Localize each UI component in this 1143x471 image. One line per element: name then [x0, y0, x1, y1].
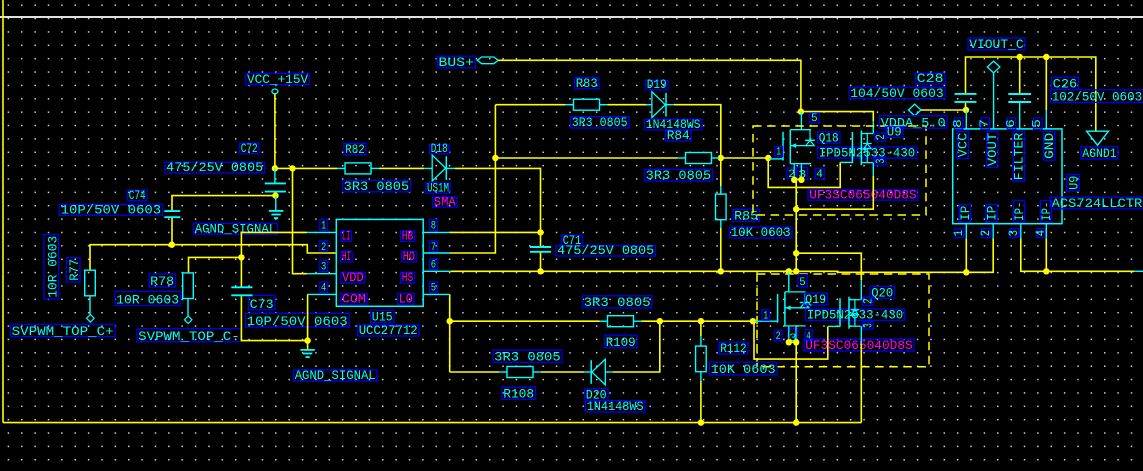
wire VCC rail to R82: [275, 167, 337, 169]
svg-text:5: 5: [811, 113, 818, 125]
svg-text:VCC: VCC: [956, 132, 971, 157]
wire Q20 source to BUS- rail: [860, 326, 862, 344]
svg-text:US1M: US1M: [427, 181, 449, 196]
wire BUS+ to Q18 drain: [498, 60, 801, 111]
svg-text:R109: R109: [606, 335, 636, 350]
wire drain rail to Q20: [801, 112, 873, 121]
pin 3 rotated: [1010, 229, 1019, 238]
label Q20: [870, 286, 895, 298]
svg-text:3: 3: [321, 262, 326, 274]
svg-text:10K 0603: 10K 0603: [731, 225, 791, 240]
svg-text:3: 3: [873, 159, 888, 164]
wire AGND_SIGNAL net to R78: [189, 257, 242, 273]
wire D18 to HB node: [447, 167, 455, 169]
wire Q19 source down: [795, 342, 797, 422]
power port VIOUT_C: [968, 37, 1025, 129]
wire IP- pins 3 4 to output: [1020, 224, 1022, 239]
junction: [793, 419, 799, 425]
svg-text:D19: D19: [647, 77, 667, 92]
wire LO to R109: [450, 320, 600, 322]
svg-text:R78: R78: [150, 274, 174, 289]
junction: [718, 268, 724, 274]
pin 4: [815, 169, 824, 179]
wire VDDA to U9 VCC: [921, 109, 966, 111]
svg-text:5: 5: [431, 283, 436, 295]
ground AGND_SIGNAL under U15: [294, 341, 378, 384]
wire LI to AGND_SIGNAL: [241, 232, 307, 257]
wire GND pin: [1045, 57, 1047, 110]
pin name FILTER: [1013, 131, 1024, 181]
svg-text:6: 6: [431, 260, 436, 272]
resistor R85: [716, 194, 793, 240]
svg-text:BUS+: BUS+: [438, 55, 474, 70]
svg-text:UCC27712: UCC27712: [359, 323, 418, 338]
junction: [793, 250, 799, 256]
svg-text:3R3 0805: 3R3 0805: [584, 295, 651, 310]
junction: [793, 268, 799, 274]
power port VCC_+15V: [246, 72, 310, 94]
pin 8: [430, 220, 438, 231]
label UF3SC065040D8S: [808, 190, 918, 200]
wire HO to R84: [495, 157, 677, 159]
wire AGND rail: [966, 57, 1096, 131]
junction: [791, 177, 797, 183]
resistor R109: [583, 295, 653, 350]
wire HO pin 7: [423, 252, 450, 254]
svg-text:C74: C74: [129, 188, 146, 203]
capacitor C28: [849, 71, 977, 110]
junction: [1017, 54, 1023, 60]
pin 3: [788, 329, 798, 343]
svg-text:1: 1: [951, 230, 966, 237]
junction: [537, 229, 543, 235]
pin 2 rotated: [862, 297, 873, 305]
wire D19 to gate node: [666, 104, 674, 106]
port SVPWM_TOP_C-: [137, 316, 241, 344]
transistor Q20 top-right FET: [852, 131, 873, 166]
junction: [698, 419, 704, 425]
svg-text:AGND_SIGNAL: AGND_SIGNAL: [295, 368, 376, 383]
svg-text:FILTER: FILTER: [1012, 133, 1027, 181]
label Q19: [804, 293, 828, 305]
junction: [657, 318, 663, 324]
junction: [1043, 54, 1049, 60]
svg-text:7: 7: [978, 119, 992, 128]
svg-text:6: 6: [1004, 119, 1018, 128]
port SVPWM_TOP_C+: [11, 315, 116, 339]
svg-text:475/25V 0805: 475/25V 0805: [557, 243, 654, 258]
wire Q19 gate: [753, 320, 778, 322]
svg-text:7: 7: [431, 242, 436, 254]
junction: [793, 339, 799, 345]
junction: [718, 155, 724, 161]
svg-text:HI: HI: [342, 249, 351, 264]
svg-text:3: 3: [860, 323, 875, 328]
pin 3: [320, 260, 328, 271]
pin name IP-: [1040, 200, 1051, 222]
pin 2 rotated: [875, 133, 886, 141]
pin name VDD: [341, 272, 365, 283]
label IPD5N2533-430: [806, 309, 905, 320]
pin name HI: [341, 252, 352, 263]
wire Q18 gate to Q20 gate: [768, 158, 840, 187]
label UF3SC065040D8S: [804, 339, 914, 351]
svg-text:UF3SC065040D8S: UF3SC065040D8S: [809, 187, 917, 202]
wire Q18 source pins: [793, 164, 795, 180]
svg-text:SVPWM_TOP_C-: SVPWM_TOP_C-: [138, 329, 240, 344]
pin 3 rotated: [862, 322, 873, 329]
wire AGND node to C73: [240, 257, 242, 286]
transistor Q18 top-left FET: [783, 130, 815, 164]
resistor R82: [343, 142, 411, 194]
resistor R83: [571, 76, 630, 130]
svg-text:10P/50V 0603: 10P/50V 0603: [61, 202, 162, 217]
junction: [238, 254, 244, 260]
junction: [447, 318, 453, 324]
wire HO to R83: [495, 104, 565, 106]
port BUS+: [437, 55, 498, 70]
junction: [1043, 268, 1049, 274]
wire BUS- bottom rail: [3, 422, 861, 424]
pin name IP: [959, 204, 970, 222]
svg-text:4: 4: [1033, 230, 1048, 237]
wire LO to R108: [450, 371, 499, 373]
wire Q20 source to phase: [872, 163, 874, 176]
svg-text:LI: LI: [342, 229, 350, 244]
wire Q19 gate to Q20 gate: [753, 321, 828, 359]
pin 6: [430, 259, 438, 269]
pin 5: [810, 113, 819, 123]
resistor R108: [493, 350, 562, 402]
junction: [750, 318, 756, 324]
svg-text:VDD: VDD: [342, 270, 364, 285]
svg-text:8: 8: [431, 221, 436, 233]
svg-text:3R3 0805: 3R3 0805: [494, 350, 561, 365]
pin name HB: [401, 231, 415, 242]
pin 8 rotated: [954, 118, 962, 129]
op-amp U15 UCC27712 gate driver: [336, 219, 423, 338]
wire D20 to gate node: [605, 371, 613, 373]
svg-text:R85: R85: [734, 209, 758, 224]
svg-text:IP: IP: [958, 206, 973, 221]
pin 5 rotated: [1034, 118, 1042, 129]
power port VDDA_5.0: [880, 104, 948, 130]
label Q18: [818, 132, 841, 143]
svg-text:C28: C28: [917, 71, 944, 86]
svg-text:UF3SC065040D8S: UF3SC065040D8S: [805, 338, 913, 353]
pin 1 rotated: [955, 229, 964, 238]
pin name VCC: [957, 131, 968, 158]
svg-text:R77: R77: [67, 259, 82, 281]
wire R77 to port: [89, 296, 91, 315]
transistor Q20 bottom-right FET: [840, 297, 861, 329]
svg-text:1: 1: [321, 221, 327, 233]
svg-text:HO: HO: [403, 249, 415, 264]
svg-text:Q18: Q18: [819, 130, 839, 145]
svg-text:10K 0603: 10K 0603: [711, 362, 776, 377]
svg-text:COM: COM: [342, 291, 366, 306]
svg-text:4: 4: [321, 283, 327, 295]
junction: [698, 318, 704, 324]
svg-text:HB: HB: [402, 229, 414, 244]
junction: [798, 108, 804, 114]
wire VCC to C72: [274, 94, 276, 169]
transistor Q19 bottom-left FET: [778, 292, 810, 326]
capacitor C73: [231, 287, 349, 329]
svg-text:3R3 0805: 3R3 0805: [646, 168, 712, 183]
svg-text:C73: C73: [250, 297, 274, 312]
wire VDD from VCC rail: [293, 168, 308, 273]
wire COM to ground: [308, 293, 337, 295]
pin 6 rotated: [1007, 118, 1015, 129]
pin name LI: [341, 231, 352, 242]
label IPD5N2533-430: [818, 147, 917, 158]
junction: [798, 177, 804, 183]
svg-text:C72: C72: [241, 141, 258, 156]
svg-text:8: 8: [951, 119, 965, 128]
svg-text:AGND_SIGNAL: AGND_SIGNAL: [195, 221, 277, 236]
pin 2: [787, 168, 797, 179]
svg-text:IP: IP: [984, 206, 999, 221]
svg-text:U9: U9: [1066, 176, 1081, 190]
pin 4: [320, 282, 328, 292]
wire R112 top: [700, 321, 702, 336]
svg-text:10R 0603: 10R 0603: [116, 293, 179, 308]
pin 4 rotated: [1037, 229, 1046, 238]
pin name HO: [402, 252, 417, 263]
svg-text:4: 4: [816, 169, 823, 181]
wire R83 to D19: [600, 104, 608, 106]
svg-text:SVPWM_TOP_C+: SVPWM_TOP_C+: [12, 324, 114, 339]
svg-text:1: 1: [776, 147, 782, 159]
pin 5: [798, 275, 807, 287]
wire IP+ pin 1: [965, 224, 967, 239]
pin 3: [797, 167, 808, 179]
wire R109 out: [634, 320, 642, 322]
wire R85 top: [720, 158, 722, 186]
svg-text:VCC_+15V: VCC_+15V: [247, 72, 308, 87]
ground AGND_SIGNAL under C72: [194, 196, 284, 237]
svg-text:3R3 0805: 3R3 0805: [344, 179, 410, 194]
svg-text:LO: LO: [399, 291, 413, 306]
wire HB pin 8: [423, 231, 450, 233]
wire gate node run: [660, 320, 753, 322]
wire C74 to ground node: [172, 196, 276, 211]
svg-text:3R3 0805: 3R3 0805: [572, 115, 628, 130]
svg-text:2: 2: [978, 230, 993, 237]
svg-text:AGND1: AGND1: [1082, 146, 1117, 161]
wire R82 to D18: [371, 167, 379, 169]
svg-text:102/50V 0603: 102/50V 0603: [1052, 90, 1143, 105]
capacitor C74: [60, 188, 181, 217]
svg-text:Q19: Q19: [805, 292, 826, 307]
svg-text:10P/50V 0603: 10P/50V 0603: [247, 314, 348, 329]
wire R85 bottom: [720, 220, 722, 228]
capacitor C26: [1008, 57, 1143, 129]
pin 7: [430, 241, 438, 252]
junction: [272, 165, 278, 171]
wire LO pin 5: [423, 293, 450, 295]
wire HS phase node: [423, 270, 451, 272]
svg-text:GND: GND: [1042, 132, 1057, 159]
wire HI net R77 row: [90, 245, 336, 271]
junction: [765, 155, 771, 161]
pin name GND: [1044, 131, 1055, 160]
pin name LO: [398, 294, 414, 305]
junction: [793, 206, 799, 212]
wire BUS- left border: [2, 0, 4, 423]
pin 1: [762, 310, 769, 320]
wire Q19 drain stub: [788, 271, 790, 292]
junction: [289, 165, 295, 171]
wire VCC pin 8: [965, 110, 967, 129]
resistor R84: [645, 128, 713, 183]
svg-text:ACS724LLCTR: ACS724LLCTR: [1052, 196, 1143, 211]
pin name COM: [341, 294, 367, 305]
pin 1: [320, 220, 328, 231]
svg-text:2: 2: [776, 331, 781, 343]
svg-text:VIOUT_C: VIOUT_C: [969, 37, 1024, 52]
svg-text:R82: R82: [345, 142, 365, 157]
capacitor C71: [530, 232, 656, 271]
pin 7 rotated: [981, 118, 989, 129]
svg-text:3: 3: [1006, 230, 1021, 237]
svg-text:R84: R84: [667, 128, 690, 143]
svg-text:1N4148WS: 1N4148WS: [587, 399, 644, 414]
svg-text:475/25V 0805: 475/25V 0805: [166, 160, 263, 175]
svg-text:D18: D18: [431, 141, 448, 156]
wire R84 to Q18 gate: [712, 157, 720, 159]
resistor R77: [44, 235, 95, 300]
junction: [963, 269, 969, 275]
pin 4: [805, 330, 812, 341]
junction: [963, 107, 969, 113]
label U9 near VDDA: [886, 127, 903, 138]
wire R78 to port: [187, 299, 189, 316]
op-amp U9 ACS724LLCTR current sensor: [953, 129, 1143, 224]
wire Q19 source pins: [788, 326, 790, 342]
junction: [169, 242, 175, 248]
svg-text:R112: R112: [720, 341, 747, 356]
junction: [304, 337, 310, 343]
diode D18 US1M: [426, 141, 457, 209]
svg-text:1: 1: [763, 310, 768, 322]
pin 2 rotated: [982, 229, 991, 238]
svg-text:SMA: SMA: [434, 194, 456, 209]
svg-text:VOUT: VOUT: [985, 133, 1000, 167]
diode D20 1N4148WS: [585, 359, 646, 414]
ground AGND1: [1081, 131, 1118, 161]
wire C74 to HI net: [171, 218, 173, 245]
svg-text:2: 2: [321, 242, 326, 254]
capacitor C72: [165, 141, 286, 196]
svg-text:104/50V 0603: 104/50V 0603: [850, 86, 944, 101]
wire R112 bottom: [700, 372, 702, 381]
dashed outline bottom FET pair: [757, 274, 929, 367]
junction: [786, 268, 792, 274]
svg-text:5: 5: [1030, 119, 1044, 128]
resistor R78: [115, 273, 193, 308]
junction: [786, 339, 792, 345]
svg-text:5: 5: [799, 277, 806, 289]
svg-text:IP-: IP-: [1012, 202, 1027, 221]
pin name IP-: [1013, 200, 1024, 222]
pin 5: [430, 282, 438, 292]
wire R108 to D20: [533, 371, 541, 373]
svg-text:2: 2: [860, 298, 875, 304]
svg-text:U9: U9: [887, 125, 902, 140]
pin name HS: [401, 272, 415, 283]
pin 3 rotated: [875, 157, 886, 165]
wire Q20 drain link: [796, 253, 861, 280]
pin name VOUT: [987, 131, 998, 167]
diode D19 1N4148WS: [645, 77, 703, 132]
svg-text:10R 0603: 10R 0603: [46, 236, 61, 298]
svg-text:HS: HS: [402, 270, 414, 285]
junction: [492, 155, 498, 161]
pin 2: [320, 241, 328, 252]
junction: [537, 268, 543, 274]
pin 2: [774, 330, 782, 341]
wire Q18 source down: [795, 180, 797, 271]
svg-text:IP-: IP-: [1039, 202, 1054, 221]
svg-text:R108: R108: [503, 387, 534, 402]
resistor R112: [696, 341, 777, 377]
svg-text:Q20: Q20: [871, 286, 893, 301]
wire C73 to ground: [241, 296, 307, 340]
junction: [272, 192, 278, 198]
dashed outline top FET pair: [753, 126, 926, 215]
pin 1: [775, 146, 783, 156]
pin name IP: [986, 204, 997, 222]
svg-text:R83: R83: [576, 76, 598, 91]
